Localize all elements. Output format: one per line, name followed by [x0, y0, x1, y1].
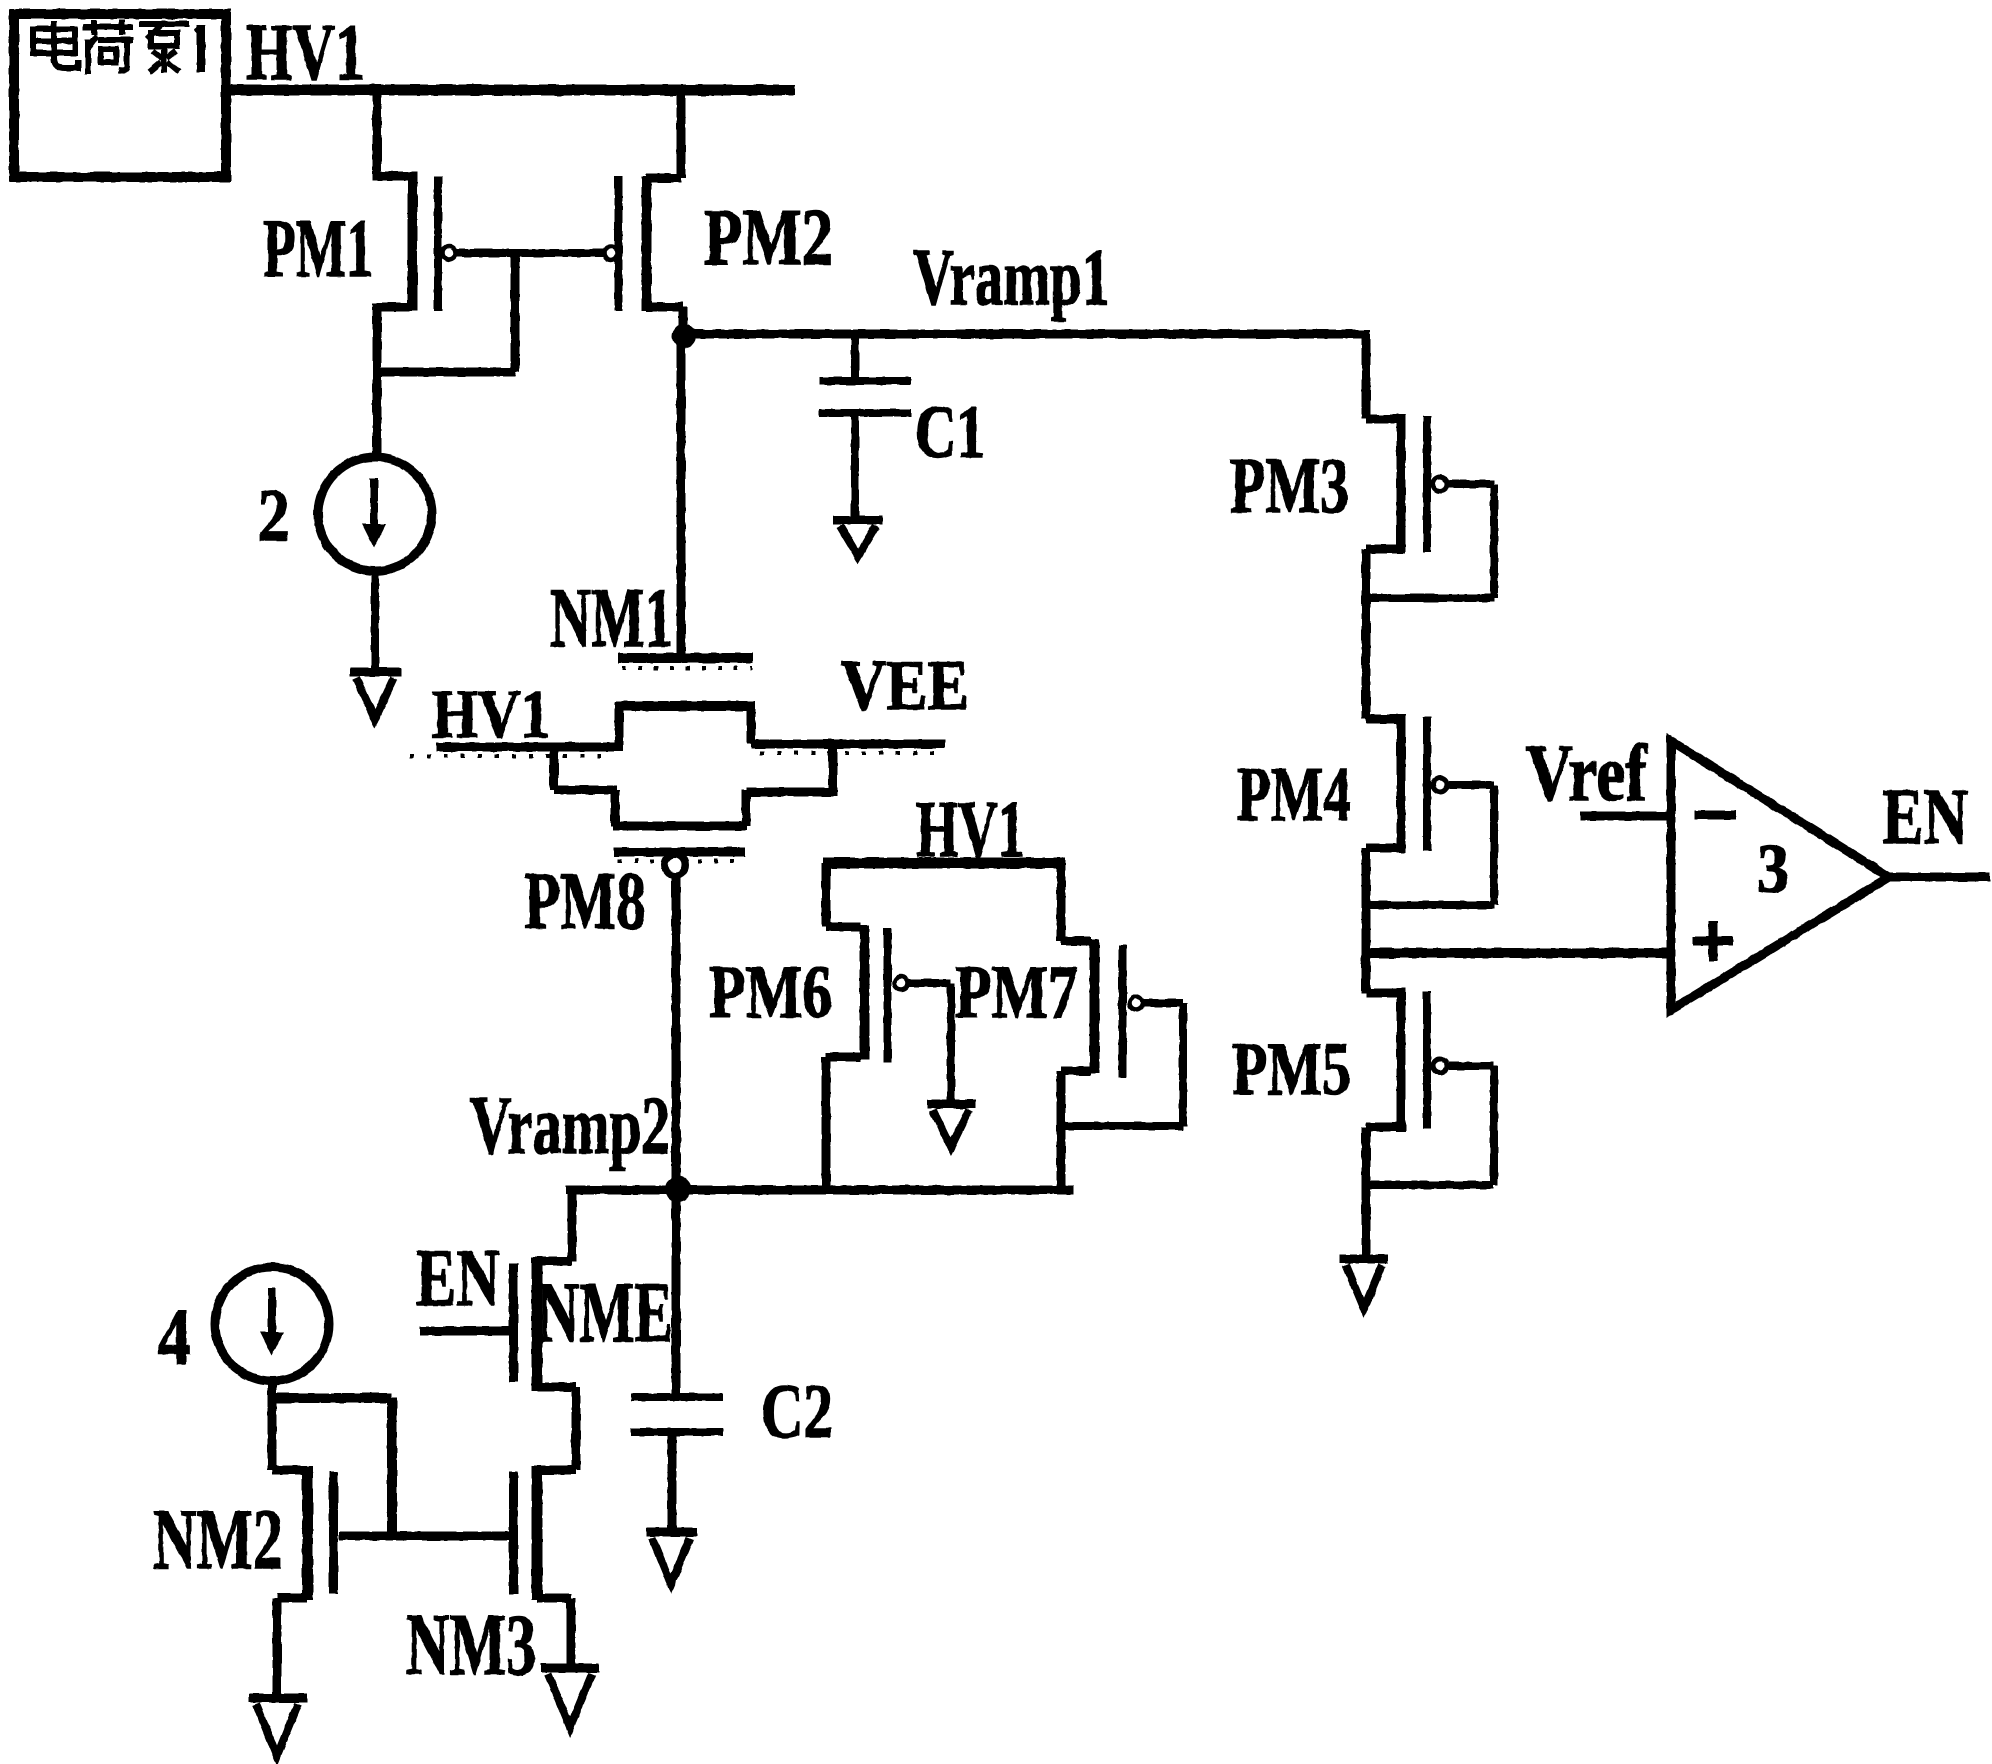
ground (below current source 2): [350, 672, 401, 719]
capacitor C1: [819, 338, 911, 517]
wire PM6 drain lead: [826, 1057, 861, 1186]
charge pump block 电荷泵1: [14, 14, 226, 177]
capacitor C2: [631, 1193, 723, 1528]
svg-text:Vramp2: Vramp2: [470, 1079, 670, 1171]
svg-text:PM3: PM3: [1230, 443, 1349, 530]
svg-text:EN: EN: [416, 1232, 500, 1323]
current source 4: [215, 1267, 329, 1381]
svg-text:VEE: VEE: [841, 647, 969, 725]
wire Vramp1 to NM1 gate: [677, 345, 686, 653]
transistor PM5: [1401, 988, 1447, 1132]
wire PM7 gate-drain tie: [1065, 1003, 1183, 1126]
svg-text:HV1: HV1: [246, 9, 365, 97]
wire current source 4 to NM2 drain: [272, 1380, 307, 1470]
op-amp comparator 3: [1671, 741, 1889, 1010]
svg-text:PM6: PM6: [709, 951, 832, 1034]
transistor PM8 (horizontal): [613, 826, 747, 876]
wire HV1 top rail of PM6/PM7: [823, 858, 1065, 869]
transistor NME: [514, 1257, 538, 1391]
wire PM5 drain lead: [1366, 1127, 1397, 1255]
wire NM1/PM8 interconnect (right step): [746, 744, 837, 826]
svg-text:PM4: PM4: [1237, 751, 1351, 837]
svg-text:NME: NME: [537, 1264, 673, 1360]
ground (below PM5): [1340, 1259, 1388, 1308]
ground (NM3 source): [541, 1668, 599, 1727]
svg-text:Vramp1: Vramp1: [913, 234, 1110, 322]
svg-text:PM2: PM2: [704, 194, 833, 282]
wire PM4 gate-drain tie: [1366, 785, 1494, 905]
transistor NM1 (horizontal): [617, 658, 753, 751]
svg-text:Vref: Vref: [1526, 730, 1648, 818]
wire NM2 source lead: [277, 1598, 307, 1694]
ground (below C1): [833, 520, 883, 556]
wire NME source to NM3 drain: [537, 1387, 576, 1470]
svg-text:PM8: PM8: [524, 855, 646, 946]
wire PM6 gate to ground: [908, 983, 951, 1100]
wire PM4 drain to PM5 source: [1366, 848, 1397, 993]
wire PM8 gate to Vramp2: [672, 873, 681, 1185]
wire PM1 gate-drain tie: [377, 253, 515, 372]
transistor PM1: [413, 172, 456, 311]
transistor PM6: [865, 925, 908, 1062]
wire PM5 gate-drain tie: [1366, 1066, 1494, 1185]
transistor NM2: [308, 1466, 334, 1600]
transistor PM7: [1095, 939, 1143, 1078]
svg-text:PM1: PM1: [263, 202, 373, 294]
svg-text:HV1: HV1: [432, 676, 550, 752]
svg-text:NM2: NM2: [153, 1491, 283, 1587]
wire NM1/PM8 interconnect (left step): [554, 747, 617, 826]
label 电荷泵1 (hand-drawn glyphs): [33, 20, 201, 74]
svg-text:PM7: PM7: [955, 951, 1078, 1034]
wire PM6 source lead: [826, 863, 861, 927]
transistor NM3: [514, 1466, 538, 1600]
wire PM2 drain lead: [646, 307, 683, 330]
transistor PM3: [1401, 414, 1447, 554]
wire Vramp2 to NME drain: [537, 1192, 572, 1261]
wire Vramp1 rail: [684, 330, 1370, 339]
wire PM3 drain to PM4 source: [1366, 549, 1397, 719]
wire NM3 source lead: [537, 1598, 571, 1664]
wire PM1 drain lead: [377, 303, 409, 460]
ground (PM6 gate): [927, 1104, 976, 1147]
svg-text:2: 2: [258, 475, 290, 557]
svg-text:PM5: PM5: [1232, 1028, 1351, 1111]
current source 2: [318, 457, 432, 571]
transistor PM4: [1401, 714, 1447, 853]
wire PM7 source lead: [1061, 863, 1091, 941]
wire NM1 to VEE: [751, 740, 945, 749]
svg-text:3: 3: [1757, 831, 1789, 908]
wire PM3 source lead: [1366, 334, 1397, 419]
node Vramp1 junction: [672, 324, 696, 348]
wire current source 4 to NM2/NM3 gates: [272, 1398, 392, 1536]
wire EN output: [1889, 873, 1990, 882]
svg-text:EN: EN: [1882, 774, 1968, 861]
svg-text:NM3: NM3: [406, 1597, 536, 1694]
node Vramp2 junction: [665, 1176, 691, 1202]
wire current source 2 to ground: [371, 570, 379, 669]
svg-text:4: 4: [158, 1294, 191, 1382]
ground (NM2 source): [249, 1698, 307, 1756]
wire EN to NME gate: [420, 1327, 509, 1336]
svg-text:C1: C1: [915, 391, 985, 474]
ground (below C2): [646, 1532, 697, 1584]
wire PM2 source lead: [646, 90, 681, 178]
wire Vramp2 rail: [566, 1186, 1073, 1195]
wire PM3 gate-drain tie: [1366, 484, 1494, 598]
wire HV1 rail: [226, 85, 795, 96]
wire NM2/NM3 gate tie: [339, 1532, 509, 1541]
svg-text:NM1: NM1: [550, 571, 673, 665]
wire HV1 to NM1: [436, 743, 619, 752]
transistor PM2: [605, 176, 647, 311]
wire Vref input: [1580, 812, 1669, 821]
wire PM7 drain lead: [1061, 1071, 1091, 1186]
svg-text:C2: C2: [761, 1368, 833, 1454]
wire PM1 source lead: [372, 90, 409, 176]
wire comparator plus input: [1366, 948, 1669, 958]
wire PM1 gate to PM2 gate: [456, 249, 604, 257]
